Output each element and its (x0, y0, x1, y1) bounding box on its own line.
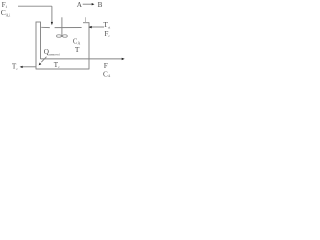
svg-text:Qremoved: Qremoved (44, 48, 60, 56)
coolant outlet arrowhead (20, 66, 23, 68)
svg-text:CA: CA (103, 71, 111, 77)
wire feed pipe horizontal (18, 5, 52, 7)
heat transfer arrow shaft (41, 57, 46, 63)
liquid surface left segment (41, 26, 50, 28)
svg-text:A: A (77, 1, 83, 9)
svg-text:T: T (75, 45, 80, 54)
reaction arrowhead (92, 3, 95, 5)
svg-text:Tc: Tc (54, 61, 60, 69)
vessel inner left wall (40, 22, 42, 59)
liquid surface right segment (55, 27, 82, 29)
jacket outer left wall (35, 22, 37, 70)
stirrer impeller left blade (57, 35, 62, 38)
svg-text:F: F (104, 61, 108, 70)
feed arrowhead (51, 22, 53, 25)
stirrer shaft (61, 17, 63, 37)
jacket outer right wall (88, 22, 90, 69)
jacket left top rim (36, 21, 41, 23)
coolant inlet stub wall (85, 17, 87, 23)
svg-text:Tci: Tci (103, 20, 110, 29)
svg-text:Fc: Fc (104, 30, 110, 38)
vessel inner bottom and product outlet line (41, 58, 123, 60)
svg-text:Tc: Tc (12, 63, 18, 71)
wire coolant outlet line (23, 66, 37, 68)
heat transfer arrowhead (39, 63, 42, 66)
svg-text:B: B (98, 1, 103, 9)
wire coolant inlet line (90, 26, 105, 28)
product outlet arrowhead (122, 58, 125, 60)
coolant inlet ledge (83, 22, 89, 24)
stirrer impeller right blade (63, 35, 68, 38)
coolant inlet arrowhead (89, 26, 92, 29)
svg-text:CA,i: CA,i (1, 8, 11, 18)
wire feed pipe vertical drop (51, 6, 53, 22)
jacket outer bottom (36, 68, 89, 70)
reaction arrow A to B (83, 3, 93, 5)
